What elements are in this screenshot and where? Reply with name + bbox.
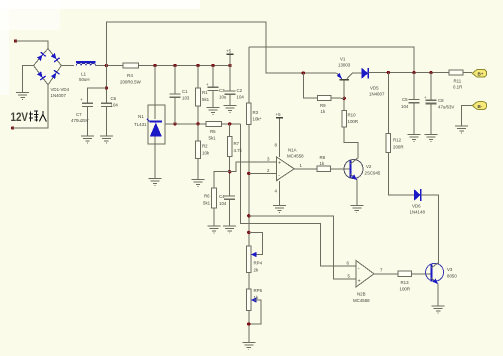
wire bridge left vertex to ground <box>23 66 34 93</box>
ground pot chain <box>242 343 255 350</box>
transistor V2 collector <box>344 127 358 164</box>
wire input+ to bridge top <box>16 41 49 49</box>
wire R12 top <box>387 73 389 134</box>
svg-text:VD5: VD5 <box>370 86 379 91</box>
node pin2 junction <box>247 172 250 175</box>
svg-text:-: - <box>278 173 280 179</box>
ground C8 <box>425 135 438 142</box>
svg-text:MC4558: MC4558 <box>287 154 304 159</box>
diode VD6 <box>414 189 421 201</box>
svg-text:104: 104 <box>237 95 245 100</box>
ground C3 <box>207 108 220 115</box>
pot RP4 body <box>247 246 252 272</box>
svg-text:C6: C6 <box>111 96 117 101</box>
wire R9 right lead <box>331 97 344 99</box>
wire R1 bottom to ref line <box>197 106 199 124</box>
node ref line x175 <box>173 122 176 125</box>
resistor R12 <box>386 133 391 152</box>
svg-text:1k: 1k <box>321 109 326 114</box>
ground V2 <box>350 206 363 213</box>
transistor V3 emitter arrow <box>433 278 439 284</box>
tag B- <box>472 102 486 110</box>
wire C5 top <box>413 73 415 100</box>
wire R3 bottom to pin2 node <box>248 125 250 247</box>
resistor R10 <box>342 111 347 128</box>
svg-text:200R0.5W: 200R0.5W <box>120 80 142 85</box>
capacitor C6 plates (left 104) <box>101 103 112 106</box>
node cap branch x106 <box>105 86 108 89</box>
svg-text:1N4148: 1N4148 <box>410 210 426 215</box>
node rail junction x175 <box>173 64 176 67</box>
wire rail R4 to +5 end <box>139 65 231 67</box>
node rail junction x213 <box>211 64 214 67</box>
svg-text:VD6: VD6 <box>412 204 421 209</box>
svg-text:RP4: RP4 <box>254 261 263 266</box>
node V1 base junction <box>343 97 346 100</box>
wire R10 top to V1 base node <box>343 98 345 110</box>
wire N1A output to R8 <box>294 168 317 170</box>
transistor V2 emitter arrow <box>351 174 357 180</box>
wire C1 top <box>174 66 176 95</box>
background white corner wash <box>0 0 200 9</box>
svg-text:N1: N1 <box>138 114 144 119</box>
svg-text:R8: R8 <box>320 155 326 160</box>
ground B- <box>455 126 468 133</box>
op-amp N2B triangle <box>356 261 374 288</box>
svg-text:C5: C5 <box>402 97 408 102</box>
resistor R8 <box>317 166 330 171</box>
wire R2 bottom to ground <box>197 159 199 180</box>
wire R9 left lead <box>303 73 317 98</box>
svg-text:R9: R9 <box>320 103 326 108</box>
wire node left to R6 <box>214 172 230 188</box>
svg-text:MC4558: MC4558 <box>353 298 370 303</box>
resistor R13 <box>398 271 411 276</box>
TL431 U-box N1 <box>148 105 165 144</box>
svg-text:8050: 8050 <box>447 274 457 279</box>
svg-text:R4: R4 <box>127 73 133 78</box>
node input- terminal dot <box>11 126 14 129</box>
wire RP5 bottom to ground <box>248 310 250 342</box>
capacitor C1 plates <box>170 94 181 97</box>
transistor V1 emitter diagonal <box>337 73 342 79</box>
svg-text:C8: C8 <box>438 98 444 103</box>
ground C5 <box>408 135 421 142</box>
ground C6 left <box>100 136 113 143</box>
resistor R4 <box>123 63 139 68</box>
transistor V3 circle <box>426 263 444 281</box>
transistor V1 emitter arrow <box>337 73 342 79</box>
wire bridge right vertex to L1 <box>61 65 74 67</box>
ground C7 <box>81 136 94 143</box>
wire C8 to ground <box>430 104 432 135</box>
wire R3 top lead <box>248 47 250 103</box>
ground C4 <box>223 226 236 233</box>
resistor R9 <box>318 96 331 101</box>
node ref line x198 <box>196 122 199 125</box>
wire R12 bottom to VD6 <box>388 152 414 194</box>
wire R13 to V3 base <box>411 273 430 275</box>
ground V3 <box>432 306 445 313</box>
svg-text:R5: R5 <box>210 129 216 134</box>
wire top loop from node x106 over to V1 emitter <box>106 22 336 73</box>
svg-text:R13: R13 <box>401 280 410 285</box>
wire R8 to V2 base <box>330 168 349 170</box>
svg-text:+5: +5 <box>226 49 232 54</box>
svg-text:R1: R1 <box>202 90 208 95</box>
wire R7 bottom to node <box>229 157 231 197</box>
node divider junction <box>228 170 231 173</box>
svg-text:VD1-VD4: VD1-VD4 <box>51 87 70 92</box>
wire C8 top <box>430 73 432 101</box>
node rail end x230 <box>228 64 231 67</box>
power +5 symbol (op-amp) <box>276 112 284 157</box>
wire RP4 to RP5 <box>248 272 250 289</box>
wire V1 base down <box>343 81 345 99</box>
transistor V1 base bar <box>340 79 349 81</box>
inductor L1 coils <box>76 63 95 65</box>
wire branch to C7 <box>88 88 107 103</box>
wire C2 top <box>229 66 231 92</box>
wire pin2 to op-amp <box>249 172 276 174</box>
svg-text:C7: C7 <box>76 112 82 117</box>
svg-text:200R: 200R <box>393 145 404 150</box>
svg-text:+: + <box>80 97 83 102</box>
svg-text:10k*: 10k* <box>253 117 262 122</box>
svg-text:100R: 100R <box>400 287 411 292</box>
transistor V3 collector <box>431 262 438 268</box>
wire top line2 from R3 over to right rail <box>249 47 414 73</box>
svg-text:100R: 100R <box>348 119 359 124</box>
label Chinese shu glyph <box>29 111 39 122</box>
wire C4 to ground <box>229 199 231 226</box>
ground C2 <box>224 106 237 113</box>
svg-text:5k1: 5k1 <box>202 97 210 102</box>
svg-text:104: 104 <box>219 201 227 206</box>
wire R2 top <box>197 124 199 141</box>
wire C6 to ground <box>105 106 107 136</box>
svg-text:V2: V2 <box>366 164 372 169</box>
power +5 symbol (rail) <box>226 49 234 66</box>
label Chinese ru glyph <box>40 111 47 122</box>
svg-text:+: + <box>278 161 281 167</box>
wire RP4 wiper loop <box>249 232 263 254</box>
node ref line x229.7 <box>228 122 231 125</box>
transistor V3 emitter <box>431 278 438 306</box>
capacitor C2 plates <box>225 91 236 94</box>
svg-text:R10: R10 <box>348 113 357 118</box>
resistor R6 <box>212 188 217 208</box>
TL431 zener symbol <box>147 119 162 137</box>
wire node x106 down to cap branch <box>105 66 107 104</box>
pot RP5 wiper arrow <box>251 297 257 303</box>
svg-text:47u/63V: 47u/63V <box>438 105 454 110</box>
node pot top junction <box>247 231 250 234</box>
bridge rectifier VD1-VD4 diamond <box>34 49 62 85</box>
svg-text:C2: C2 <box>237 88 243 93</box>
svg-text:1N4007: 1N4007 <box>369 92 385 97</box>
op-amp N1A triangle <box>276 157 294 181</box>
svg-text:5k1: 5k1 <box>203 201 211 206</box>
svg-text:1k: 1k <box>320 161 325 166</box>
node rail R9 tap <box>302 71 305 74</box>
transistor V2 emitter <box>350 174 357 206</box>
wire C1 bottom to ref line <box>174 97 176 124</box>
svg-text:R12: R12 <box>393 138 402 143</box>
svg-text:R6: R6 <box>204 194 210 199</box>
transistor V3 base bar <box>430 265 432 282</box>
pot RP5 body <box>247 289 252 310</box>
wire TL431 cathode <box>154 66 156 120</box>
wire R7 top <box>229 124 231 137</box>
capacitor C4 plates <box>224 196 235 199</box>
svg-text:V1: V1 <box>340 57 346 62</box>
resistor R3 <box>247 103 252 125</box>
svg-text:N2B: N2B <box>357 292 366 297</box>
svg-text:470u25V: 470u25V <box>71 118 89 123</box>
svg-text:V3: V3 <box>447 267 453 272</box>
resistor R7 <box>227 137 232 157</box>
svg-text:L1: L1 <box>81 72 87 77</box>
wire C7 to ground <box>87 106 89 136</box>
svg-text:2SC945: 2SC945 <box>365 171 381 176</box>
ground R6 <box>208 226 221 233</box>
wire ref route down and right to N2B pin6 <box>241 124 356 266</box>
svg-text:R7: R7 <box>234 141 240 146</box>
node rail junction x155 <box>153 64 156 67</box>
svg-text:12V: 12V <box>11 112 29 124</box>
ground R2 <box>192 180 205 187</box>
resistor R5 on ref line <box>206 121 221 126</box>
wire TL431 anode to ground <box>154 137 156 179</box>
wire input- to bridge bottom <box>13 85 48 128</box>
svg-text:1N4007: 1N4007 <box>51 93 67 98</box>
capacitor C5 plates <box>409 100 420 103</box>
svg-text:+: + <box>358 278 361 284</box>
diode VD3 (bottom-left edge) <box>37 71 46 80</box>
diode VD4 (bottom-right edge) <box>51 70 60 79</box>
svg-text:5k1: 5k1 <box>209 136 217 141</box>
svg-text:R2: R2 <box>202 144 208 149</box>
node rail x431 <box>429 71 432 74</box>
wire TL431 ref line <box>165 123 206 125</box>
tag B+ <box>472 69 486 77</box>
resistor R2 <box>196 141 201 159</box>
wire R1 top <box>197 66 199 89</box>
wire C3 top <box>212 66 214 88</box>
wire C2 to ground <box>229 94 231 105</box>
svg-text:R3: R3 <box>253 110 259 115</box>
wire node to op-amp pin3 <box>230 162 277 172</box>
resistor R11 <box>449 70 463 75</box>
capacitor C8 electrolytic plates <box>426 100 437 103</box>
wire C5 to ground <box>413 103 415 135</box>
node rail x388 <box>387 71 390 74</box>
svg-text:C3: C3 <box>219 88 225 93</box>
ground TL431 <box>149 179 162 186</box>
pot RP4 wiper arrow <box>251 252 257 258</box>
diode VD2 (top-right edge) <box>51 53 60 62</box>
svg-text:2k: 2k <box>254 268 259 273</box>
svg-text:+5: +5 <box>276 112 282 117</box>
svg-text:104: 104 <box>111 103 119 108</box>
svg-text:TL431: TL431 <box>134 122 147 127</box>
ground bridge left <box>16 93 29 100</box>
svg-text:-: - <box>358 266 360 272</box>
resistor R1 <box>196 88 201 106</box>
wire rail VD5 to R11 <box>368 72 449 74</box>
svg-text:C4: C4 <box>219 194 225 199</box>
svg-text:10u: 10u <box>219 95 227 100</box>
diode VD5 <box>362 68 369 79</box>
wire N1A pin4 to ground <box>279 181 281 206</box>
svg-text:103: 103 <box>182 96 190 101</box>
wire N2B output to R13 <box>374 273 398 275</box>
transistor V1 collector diagonal <box>347 73 362 79</box>
svg-text:C1: C1 <box>182 89 188 94</box>
capacitor C3 plates <box>208 87 219 90</box>
transistor V2 base bar <box>349 161 351 178</box>
wire R11 to tag <box>463 72 472 74</box>
inductor L1 core bar <box>76 61 96 63</box>
node rail junction x198 <box>196 64 199 67</box>
wire ref line R5 to corner <box>221 123 240 125</box>
node feedback junction y215.8 <box>247 214 250 217</box>
svg-text:N1A: N1A <box>288 148 297 153</box>
svg-text:104: 104 <box>401 104 409 109</box>
wire R6 bottom to ground <box>213 208 215 226</box>
transistor V2 circle <box>344 160 363 179</box>
node pot bottom junction <box>247 322 250 325</box>
wire C3 to ground <box>212 91 214 108</box>
node rail x414 <box>412 71 415 74</box>
wire L1 to node <box>96 65 123 67</box>
svg-text:R11: R11 <box>454 79 462 84</box>
node rail junction x106 <box>105 64 108 67</box>
wire tag B- to ground <box>462 106 472 126</box>
svg-text:4.7k: 4.7k <box>234 148 243 153</box>
svg-text:10k: 10k <box>202 151 210 156</box>
svg-text:+: + <box>206 82 209 87</box>
wire VD6 to V3 collector <box>421 195 439 265</box>
svg-text:0.1R: 0.1R <box>453 85 462 90</box>
wire RP5 wiper loop <box>249 300 261 324</box>
ground N1A <box>273 206 286 213</box>
node input+ terminal dot <box>14 39 17 42</box>
svg-text:RP5: RP5 <box>254 288 263 293</box>
svg-text:50uH: 50uH <box>79 77 90 82</box>
capacitor C7 plates <box>82 103 93 106</box>
svg-text:13003: 13003 <box>338 63 351 68</box>
svg-text:+: + <box>424 95 427 100</box>
diode VD1 (top-left edge) <box>37 52 46 61</box>
wire feedback route to N2B pin5 <box>249 216 356 279</box>
